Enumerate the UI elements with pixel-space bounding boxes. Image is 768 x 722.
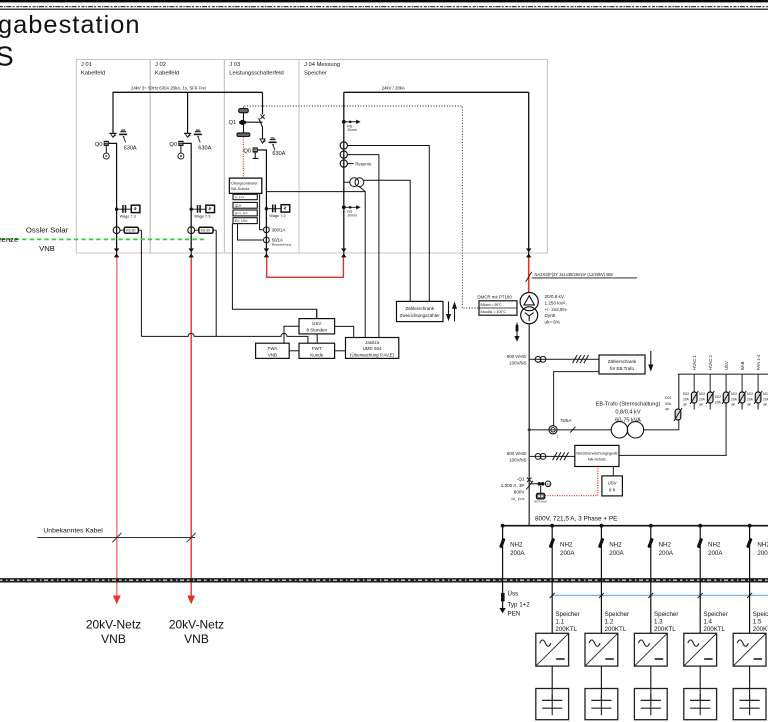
svg-text:20A: 20A [763,398,768,402]
VT pair metering [535,356,546,362]
slash at J02 cable [187,533,196,542]
PEN ground arrow [499,608,505,613]
wire Q0 down J01 [105,146,107,153]
svg-text:QU+: QU+ [235,204,242,208]
battery 1.3 [634,689,667,720]
green dashed property boundary [0,238,207,240]
svg-text:D02: D02 [665,396,671,400]
svg-text:D02: D02 [731,392,737,396]
motor drive J01 [103,153,109,159]
battery 1.1 [536,689,569,720]
inverter 1.1 [536,633,569,666]
USV 8h box [602,476,623,496]
inverter 1.4 [684,633,717,666]
svg-text:75/5A: 75/5A [560,418,571,423]
wire feeder J03 mid [265,205,267,249]
svg-text:-Q1: -Q1 [517,476,525,481]
storage feeder 1.3 [647,526,678,634]
svg-text:1.2: 1.2 [605,619,614,626]
surge arrester J04 [341,248,346,257]
svg-text:1.000 A, 3P: 1.000 A, 3P [501,483,525,488]
wire relay stack to USV control [232,224,316,319]
svg-text:Zweirichtungszähler: Zweirichtungszähler [400,313,441,318]
RS arrow 2 J04 [342,205,361,218]
svg-text:100V/NS: 100V/NS [509,458,526,463]
ring CT 50/1A J03 [264,237,270,243]
svg-text:60-75 kVA: 60-75 kVA [615,418,641,424]
down arrow by Zaehlerschrank [648,351,653,372]
svg-text:Dyn5: Dyn5 [545,313,556,318]
disconnector J01 [109,133,116,137]
surge arrester main [526,248,531,257]
wire -Q1 aux branch [529,483,537,485]
red link J03 to J04 [267,258,344,278]
svg-text:USV: USV [724,361,729,370]
svg-text:1.3: 1.3 [654,619,663,626]
EB trafo circles [611,422,644,438]
svg-text:NH2: NH2 [708,541,721,548]
svg-text:Kabelfeld: Kabelfeld [155,71,179,77]
wire VT to Zaehlerschrank [364,180,410,301]
svg-text:800 V/HS/: 800 V/HS/ [507,451,527,456]
black dotted wire Q1 to DMCR [244,106,479,308]
wire inverter to battery 1.1 [551,666,553,688]
svg-text:1.250 kVA: 1.250 kVA [545,301,567,306]
CT 75/5A [549,426,559,439]
svg-text:NH2: NH2 [510,541,523,548]
wire aux to trip box [540,486,542,494]
svg-text:Q0: Q0 [243,148,251,154]
svg-text:S: S [0,41,14,72]
blue comm line [552,594,768,596]
ground J01 [119,130,127,142]
storage feeder 1.5 [746,526,768,634]
D02 fuse EB feed [674,408,682,421]
svg-text:ϑAlarm ≈ 90°C: ϑAlarm ≈ 90°C [480,303,502,307]
aux contact symbol [538,482,545,486]
CT with Wago 7.3 J03 [265,205,290,219]
svg-text:Zählerschrank: Zählerschrank [405,306,434,311]
cable J01 to 20kV Netz (red) [116,258,118,597]
EB circuit HVAC 1 [683,355,698,410]
svg-text:D02: D02 [747,392,753,396]
svg-text:M: M [547,483,550,487]
svg-text:200A: 200A [659,550,674,557]
wire KS30 J02 down [215,230,217,336]
svg-text:VNB: VNB [39,244,55,253]
wire Q0 down J02 [180,146,182,153]
field box J03 [224,60,299,254]
wire FWA to FWT [289,350,299,352]
svg-text:200A: 200A [560,550,575,557]
trip unit box [536,493,544,499]
svg-text:für EB Trafo: für EB Trafo [610,366,635,371]
svg-text:Üss: Üss [508,590,519,597]
ground J02 [194,130,202,142]
relay function box 1 [233,194,257,199]
svg-text:Speicher: Speicher [605,611,629,618]
arrowhead J01 cable [113,596,121,605]
junction main/EB [528,428,531,431]
Zaehlerschrank fuer EB Trafo box [599,355,645,374]
svg-text:20A: 20A [747,398,754,402]
wire control horizontal to FWT (with hops) [141,333,308,343]
svg-text:USV: USV [312,321,321,326]
svg-text:Unbekanntes Kabel: Unbekanntes Kabel [43,527,103,534]
wire relay box to ring1 [260,193,263,229]
svg-text:Leistungsschalterfeld: Leistungsschalterfeld [229,71,283,77]
USS arrester block [501,593,505,602]
svg-text:NA-Schutz: NA-Schutz [588,457,606,461]
svg-text:USV: USV [608,481,617,486]
svg-text:Q0: Q0 [169,142,177,148]
svg-text:Ossler Solar: Ossler Solar [26,226,69,235]
field box J01 [76,60,150,254]
surge arrester J02 [189,248,194,257]
svg-text:20/0,8 kV: 20/0,8 kV [545,294,565,299]
svg-text:20A: 20A [715,400,722,404]
EB circuit USV [619,361,730,455]
svg-text:D02: D02 [683,392,689,396]
bus bar left J01-J03 [113,91,263,93]
svg-text:Typ 1+2: Typ 1+2 [508,602,531,609]
svg-text:HVAC 2: HVAC 2 [708,355,713,370]
svg-text:U<>, f<>: U<>, f<> [235,211,248,215]
motor drive J02 [178,153,184,159]
svg-text:I0>, U0>: I0>, U0> [235,219,248,223]
svg-text:Messwicklung: Messwicklung [272,243,292,247]
svg-text:Speicher: Speicher [304,71,327,77]
svg-text:200KTL: 200KTL [703,626,725,633]
ring CT 1 J04 [340,142,347,149]
svg-text:Janitza: Janitza [365,340,379,345]
svg-text:+/- 2x2,5%: +/- 2x2,5% [545,307,567,312]
wire Q0 to feeder J01 [109,143,117,205]
wire inverter to battery 1.3 [650,666,652,688]
top border crushed text strip [0,0,768,9]
EB circuit edge fragment [763,392,768,407]
red dotted wire Q1 to NA-Schutz [242,137,244,178]
wire J03 measure line to Janitza [266,192,365,338]
transformer T1 primary circle (delta) [520,293,538,311]
svg-text:200KTL: 200KTL [753,626,768,633]
wire inverter to battery 1.5 [749,666,751,688]
wire ring3 stub [347,163,353,165]
battery 1.2 [585,689,618,720]
DMCR box [479,301,517,315]
wire USS drop [502,526,504,593]
slash at J01 cable [112,533,121,542]
USV 8 Stunden box [299,319,335,334]
battery 1.5 [733,689,766,720]
wire main bus drop [528,92,530,248]
ground J03 [269,138,277,150]
svg-text:630A: 630A [124,145,137,151]
relay function box 4 [233,218,257,224]
svg-text:0,8/0,4 kV: 0,8/0,4 kV [615,409,640,415]
wire FWT to Janitza [335,350,346,352]
svg-text:Q1: Q1 [229,120,237,126]
wire ring1 to Zaehlerschrank [347,146,429,302]
wire J01 bus drop [112,92,114,133]
wire inverter to battery 1.2 [600,666,602,688]
svg-text:I>, I>>: I>, I>> [511,496,524,501]
junction dots busbar [501,524,752,528]
cable J02 to 20kV Netz (red) [190,258,192,597]
wire ring2 to Janitza [347,155,379,338]
NA-Schutz relay box J03 [229,178,261,193]
svg-text:NA-Schutz: NA-Schutz [231,187,249,191]
inverter 1.5 [733,633,766,666]
svg-text:Speicher: Speicher [703,611,727,618]
red cable to trafo [528,258,530,293]
svg-text:300/1A: 300/1A [272,227,286,232]
svg-text:800 V/HS/: 800 V/HS/ [507,354,527,359]
EB circuit BAB [731,361,746,409]
svg-text:20A: 20A [731,398,738,402]
svg-text:200A: 200A [708,550,723,557]
up arrow by Zweirichtungszaehler [452,302,457,322]
svg-text:ϑAuslös. ≈ 100°C: ϑAuslös. ≈ 100°C [480,310,506,314]
svg-text:UMG 604: UMG 604 [363,346,382,351]
svg-text:uk= 6%: uk= 6% [545,319,560,324]
svg-text:Kabelfeld: Kabelfeld [81,71,105,77]
wire J03 bus drop [262,92,264,114]
earthing T-bar below Q0 J03 [253,153,259,159]
svg-text:s: s [557,435,559,439]
NH2 fuse USS drop [499,538,506,548]
svg-text:200KTL: 200KTL [605,626,627,633]
svg-text:Speicher: Speicher [753,611,768,618]
svg-text:200A: 200A [510,550,525,557]
wire Q1 branch J03 [244,113,263,133]
wire relay box4 to ring2 [238,224,263,240]
svg-text:NH2: NH2 [757,541,768,548]
svg-text:NA2XS(F)2Y 3x1x35/25mm² (12/20: NA2XS(F)2Y 3x1x35/25mm² (12/20kV) BW [535,272,614,277]
svg-text:NH2: NH2 [609,541,622,548]
wire FWA up to USV [284,326,299,343]
relay function box 2 [233,202,257,208]
wire EB distribution bus [678,373,768,375]
svg-text:VNB: VNB [268,352,277,357]
Zaehlerschrank Zweirichtungszaehler box [397,301,444,321]
svg-text:1.1: 1.1 [555,619,564,626]
ring CT 2 J04 [340,151,347,158]
VT pair J04 [350,178,364,187]
svg-text:200A: 200A [609,550,624,557]
hatch marks NA branch [553,452,569,460]
svg-text:8 Stunden: 8 Stunden [307,328,328,333]
relay function box 3 [233,210,257,216]
arrowhead J02 cable [187,596,195,605]
power flow arrow [514,323,519,342]
switch Q0 J01 [104,141,109,146]
drawout contact x J03 [260,115,264,119]
svg-text:NOT-AUS: NOT-AUS [534,500,547,504]
svg-text:J 04 Messung: J 04 Messung [304,62,340,68]
svg-text:NH2: NH2 [560,541,573,548]
switch Q0 J03 [253,147,258,152]
breaker -Q1 drawout marks [526,478,533,490]
svg-text:24kV / 20kA: 24kV / 20kA [382,85,405,90]
switch Q0 J02 [178,141,183,146]
svg-text:FAN 1-4: FAN 1-4 [756,354,761,370]
busbar 800V [503,525,768,527]
Q1 lower drawout contact J03 [237,133,250,137]
svg-text:20kV-Netz: 20kV-Netz [86,618,141,632]
svg-text:J 01: J 01 [81,62,92,68]
wire VT diagonal to measure line [359,186,365,191]
svg-text:630A: 630A [272,151,285,157]
wire J02 bus drop [187,92,189,133]
svg-text:D02: D02 [763,392,768,396]
inverter 1.3 [634,633,667,666]
svg-text:J 02: J 02 [155,62,166,68]
svg-text:24kV 3~ 50Hz 630A 20kA, 1s, SF: 24kV 3~ 50Hz 630A 20kA, 1s, SF6 Frei [131,85,206,90]
svg-text:EB-Trafo (Sternschaltung): EB-Trafo (Sternschaltung) [596,401,661,407]
ring CT with KS-30 J01 [113,227,141,234]
svg-text:gabestation: gabestation [0,11,141,39]
svg-text:8 h: 8 h [609,488,616,493]
label D02 50A 4P [665,396,672,411]
cable label underline [532,277,637,279]
wire NA stack to USV box [316,309,318,318]
wire J04 bus drop feeder [343,92,345,248]
svg-text:200A: 200A [757,550,768,557]
svg-text:PEN: PEN [508,610,521,617]
wire EB bus left drop [678,374,680,409]
motor circle M [545,481,551,487]
ring CT with KS-30 J02 [188,227,216,234]
svg-text:Übergeordneter: Übergeordneter [231,181,258,185]
svg-text:FWA: FWA [267,346,277,351]
field box J02 [150,60,224,254]
svg-text:800V, 721,5 A, 3 Phase + PE: 800V, 721,5 A, 3 Phase + PE [535,516,617,523]
transformer T1 secondary circle (wye) [521,307,538,324]
Netzueberwachungsgeraet box [575,445,619,466]
svg-text:J 03: J 03 [229,62,240,68]
svg-text:20A: 20A [699,398,706,402]
wire EB tap down [554,372,599,426]
EB circuit HVAC 2 [699,355,714,410]
svg-text:renze: renze [0,235,18,244]
svg-text:1.4: 1.4 [703,619,712,626]
RS arrow 1 J04 [342,120,361,133]
FWT Kunde box [299,343,335,358]
wire KS30 J01 down [140,230,142,336]
svg-text:50A: 50A [665,402,672,406]
hatch marks metering [573,355,589,363]
ring CT 3 J04 Reserve [340,160,347,167]
surge arrester J03 [264,248,269,257]
svg-text:I>, I>>: I>, I>> [235,196,245,200]
svg-text:D02: D02 [715,395,721,399]
svg-text:BAB: BAB [740,361,745,370]
disconnector J02 [184,133,191,137]
svg-text:DMCR mit PT100: DMCR mit PT100 [477,294,512,299]
wire USV to FWT [316,334,318,343]
svg-text:100V/NS: 100V/NS [509,361,526,366]
svg-text:200KTL: 200KTL [654,626,676,633]
Janitza box [346,338,399,359]
storage feeder 1.1 [549,526,580,634]
VT pair NA branch [535,454,546,460]
Q1 upper drawout contact J03 [239,109,249,113]
svg-text:VNB: VNB [101,632,126,646]
svg-text:FWT: FWT [312,346,322,351]
wire inverter to battery 1.4 [699,666,701,688]
battery 1.4 [684,689,717,720]
CT with Wago 7.3 J01 [115,205,140,219]
svg-text:1.5: 1.5 [753,619,762,626]
svg-text:HVAC 1: HVAC 1 [692,355,697,370]
wire NA box to USV 8h [612,467,614,476]
svg-text:20A: 20A [683,398,690,402]
wire main LV vertical [528,324,530,526]
cable slash mark [526,272,532,282]
svg-text:Kunde: Kunde [310,352,324,357]
wire Q0 to feeder J03 [258,150,267,205]
field box J04 [299,60,547,254]
slash on EB feed [570,427,575,433]
EB circuit FAN 1-4 [747,354,762,410]
svg-text:Speicher: Speicher [654,611,678,618]
wire feeder J02 mid [190,205,192,248]
svg-text:Netzüberwachungsgerät: Netzüberwachungsgerät [576,452,618,456]
svg-text:200KTL: 200KTL [555,626,577,633]
storage feeder 1.4 [697,526,728,634]
wire Q0 to feeder J02 [184,143,192,205]
svg-text:630A: 630A [198,145,211,151]
svg-text:VNB: VNB [184,632,209,646]
svg-text:20kV-Netz: 20kV-Netz [169,618,224,632]
FWA VNB box [256,343,290,358]
wire EB trafo feed [529,420,679,430]
svg-text:(Überwachung P.AV,E): (Überwachung P.AV,E) [350,352,395,357]
wire below USS [502,601,504,608]
wire feeder J01 mid [116,205,118,248]
red dotted trip wire to NA box [545,467,598,496]
inverter 1.2 [585,633,618,666]
wire USV to Janitza [335,326,354,337]
ring CT 300/1A J03 [264,227,270,233]
wire feeder to VT J04 [344,181,350,183]
svg-text:800V: 800V [514,490,526,495]
down arrow by Zweirichtungszaehler [446,302,451,322]
earthing triangle J03 [260,139,266,143]
wire to NA-Schutz [529,455,575,457]
svg-text:Reserve: Reserve [355,161,372,166]
svg-text:Q0: Q0 [95,142,103,148]
wire to EB metering [529,358,599,360]
surge arrester J01 [114,248,119,257]
svg-text:Zählerschrank: Zählerschrank [608,359,637,364]
CT with Wago 7.3 J02 [190,205,215,219]
unknown cable line [37,537,195,539]
switch blade J03 [259,118,263,139]
svg-text:NH2: NH2 [659,541,672,548]
storage feeder 1.2 [598,526,629,634]
bus bar right J04 [344,91,529,93]
breaker Q1 symbol J03 [239,120,246,125]
svg-text:D02: D02 [699,392,705,396]
svg-text:Speicher: Speicher [555,611,579,618]
